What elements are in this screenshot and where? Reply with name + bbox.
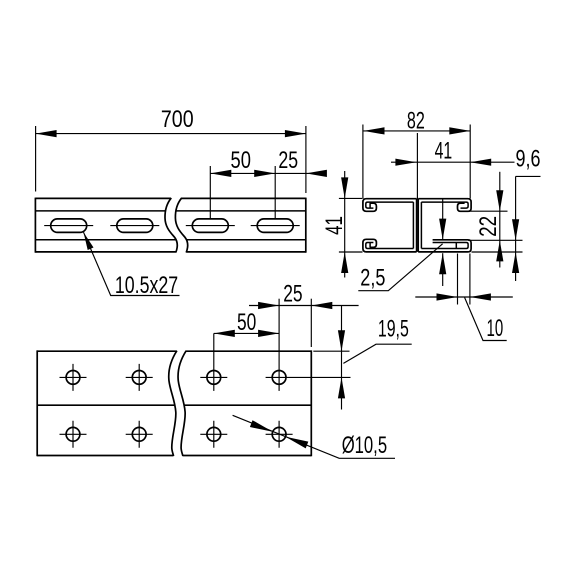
dimension 10 leader (465, 298, 507, 341)
dimension 2,5 arrow up tail (442, 253, 444, 286)
dimension 41 left extension bottom (339, 251, 363, 253)
svg-text:10.5x27: 10.5x27 (115, 272, 178, 299)
dimension 25 arrow outside right (306, 170, 327, 177)
side view upper lip line (35, 210, 305, 212)
svg-text:10: 10 (487, 315, 504, 342)
dimension 2,5 arrow down (439, 219, 446, 240)
extension line lip top right (468, 239, 523, 241)
right channel inner bottom contour with lip underside (421, 243, 468, 249)
dimension 50 arrow right (254, 170, 275, 177)
dimension 82 arrow right (449, 127, 470, 134)
dimension 10 arrow left outside (437, 293, 458, 300)
svg-text:41: 41 (435, 137, 453, 164)
hole B2 cross (126, 421, 153, 448)
hole A1 circle (66, 371, 80, 385)
callout 10.5x27 leader arrow (84, 232, 94, 250)
svg-text:9,6: 9,6 (516, 146, 541, 173)
extension line profile bottom right (472, 251, 523, 253)
dimension 82 line (364, 130, 471, 132)
dimension 9,6 shelf (516, 175, 541, 177)
callout diameter 10,5 arrow lower (286, 437, 309, 449)
dimension 22 line vertical (499, 172, 501, 268)
dimension 41 left line (344, 171, 346, 278)
svg-text:82: 82 (407, 107, 425, 134)
plan view left edge (36, 350, 38, 456)
side view top edge (35, 197, 305, 199)
dimension 41 top line (391, 161, 515, 163)
dimension 10 extension left (457, 254, 459, 305)
dimension 50 arrow left (210, 170, 231, 177)
right channel inner left wall (420, 202, 422, 248)
svg-text:41: 41 (321, 216, 348, 235)
dimension 10 arrow right outside (470, 293, 491, 300)
plan dimension 25-50 extension col4 (278, 299, 280, 391)
svg-text:700: 700 (161, 106, 194, 133)
left channel outer top contour with lip (363, 199, 417, 212)
plan view break white band (169, 350, 186, 457)
dimension 50 extension from slot S3 (209, 166, 211, 220)
side view break white band (165, 197, 188, 254)
dimension 22 arrow down (496, 190, 503, 211)
left channel outer bottom contour with lip (363, 239, 417, 252)
dimension 19,5 leader (343, 344, 411, 363)
hole A1 cross (60, 364, 87, 391)
dimension 10 line (415, 296, 513, 298)
plan dimension 25 arrow left outside (258, 302, 279, 309)
dimension 22 arrow up (496, 240, 503, 261)
hole B4 cross (266, 421, 293, 448)
dimension 700 arrow left (36, 130, 57, 137)
slot S2 centerline (110, 225, 159, 227)
svg-text:2,5: 2,5 (360, 264, 385, 291)
side view bottom edge (35, 251, 305, 253)
plan dimension 50 arrow right (258, 330, 279, 337)
dimension 700 extension line left (35, 126, 37, 192)
hole B1 circle (66, 427, 80, 441)
slot S2 (117, 219, 153, 233)
dimension 700 extension line right (305, 126, 307, 193)
dimension 2,5 leader (358, 244, 442, 291)
right channel outer bottom contour with extended lip (418, 240, 471, 252)
plan top edge extension right (313, 350, 349, 352)
dimension 19,5 line vertical (341, 306, 343, 410)
dimension 41 top arrow right outside (470, 159, 491, 166)
left channel bottom sheet edge (369, 243, 371, 248)
dimension 700 arrow right (285, 130, 306, 137)
right channel inner top contour (421, 202, 468, 208)
dimension 10 extension right (469, 254, 471, 305)
svg-text:50: 50 (231, 147, 251, 174)
plan view break curve right (178, 351, 186, 456)
hole B2 circle (132, 427, 146, 441)
hole B3 cross (200, 421, 227, 448)
dimension 19,5 arrow down (338, 330, 345, 351)
side view break curve right (175, 198, 187, 253)
callout 10.5x27 leader line (84, 232, 180, 295)
plan dimension 50 extension col3 (213, 333, 215, 391)
plan view middle line (37, 404, 311, 406)
callout diameter 10,5 arrow upper (250, 420, 273, 432)
right channel outer top contour with lip (418, 199, 471, 212)
hole B1 cross (60, 421, 87, 448)
slot S4 centerline (251, 225, 300, 227)
svg-text:22: 22 (475, 216, 502, 237)
left channel top sheet edge (369, 203, 371, 208)
hole A3 cross (200, 376, 227, 378)
dimension 82 extension left (362, 125, 364, 200)
svg-text:25: 25 (283, 281, 302, 308)
svg-text:50: 50 (237, 309, 256, 336)
side view lower lip line (35, 239, 305, 241)
right channel seam outer wall (417, 199, 419, 252)
plan view top edge (37, 350, 311, 352)
hole A3 circle (207, 371, 221, 385)
right channel bottom sheet edge (455, 243, 457, 249)
left channel seam inner wall (412, 202, 414, 248)
dimension 19,5 arrow up (338, 377, 345, 398)
dimension 41 top arrow left (395, 159, 416, 166)
dimension 50-25 line (210, 172, 320, 174)
dimension 82 extension right (469, 125, 471, 199)
hole A2 cross (126, 364, 153, 391)
left channel inner top contour (366, 202, 414, 208)
plan view break curve left (169, 351, 177, 456)
dimension 9,6 arrow down (512, 219, 519, 240)
dimension 700 line (36, 133, 306, 135)
side view left edge (34, 198, 36, 253)
dimension 41 left arrow bottom (341, 252, 348, 273)
left channel inner bottom contour (366, 243, 414, 249)
plan view right edge (310, 350, 312, 456)
slot S1 centerline (44, 225, 93, 227)
dimension 82 arrow left (364, 127, 385, 134)
svg-text:Ø10,5: Ø10,5 (342, 432, 387, 459)
side view right edge (305, 198, 307, 253)
plan dimension 25 line (249, 305, 359, 307)
plan dimension 50 arrow left (214, 330, 235, 337)
dimension 2,5 line vertical (442, 200, 444, 240)
hole B3 circle (207, 427, 221, 441)
slot S3 centerline (186, 225, 235, 227)
dimension 9,6 line vertical (515, 176, 517, 281)
slot S4 (257, 219, 293, 233)
dimension 50 extension from slot S4 (274, 166, 276, 220)
svg-text:25: 25 (278, 147, 298, 174)
plan dimension 25 arrow right outside (311, 302, 332, 309)
dimension 9,6 arrow up (512, 252, 519, 273)
svg-text:19,5: 19,5 (378, 315, 409, 342)
extension line lip bottom right (468, 210, 508, 212)
dimension 41 left extension top (339, 197, 362, 199)
left channel seam outer wall (416, 199, 418, 252)
dimension 41 top extension middle (416, 133, 418, 199)
slot S1 (51, 219, 87, 233)
hole A4 circle (272, 371, 286, 385)
hole A2 circle (132, 371, 146, 385)
plan view bottom edge (37, 455, 311, 457)
plan dimension 50 line (214, 332, 279, 334)
dimension 41 left arrow top (341, 177, 348, 198)
dimension 2,5 arrow up (439, 253, 446, 274)
side view break curve left (165, 198, 177, 253)
plan dimension 25 extension right edge (310, 299, 312, 347)
hole B4 circle (272, 427, 286, 441)
callout diameter 10,5 leader (233, 415, 395, 458)
hole A4 cross extended right (266, 376, 351, 378)
slot S3 (192, 219, 228, 233)
